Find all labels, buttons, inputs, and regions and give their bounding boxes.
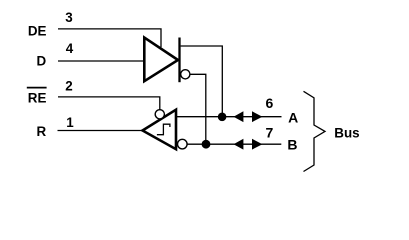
- wire bus line A: [176, 116, 282, 118]
- svg-text:D: D: [37, 54, 47, 69]
- wire driver noninverting output to node A: [181, 46, 223, 117]
- receiver hysteresis symbol: [157, 124, 170, 135]
- svg-text:DE: DE: [28, 24, 47, 39]
- svg-text:1: 1: [66, 115, 74, 130]
- svg-text:7: 7: [266, 124, 274, 140]
- bus brace: [304, 91, 326, 171]
- arrowhead left on line B: [234, 139, 244, 150]
- wire DE pin3 to driver enable: [58, 29, 161, 47]
- wire bus line B: [187, 143, 281, 145]
- svg-text:RE: RE: [28, 90, 47, 105]
- junction node B: [202, 140, 211, 149]
- receiver enable bubble: [155, 110, 164, 119]
- svg-text:3: 3: [65, 10, 72, 25]
- wire D pin4 to driver input: [58, 60, 145, 62]
- svg-text:2: 2: [65, 79, 72, 94]
- receiver R1 triangle: [143, 110, 177, 150]
- wire R pin1 to receiver output: [58, 130, 144, 132]
- svg-text:6: 6: [266, 95, 274, 111]
- svg-text:A: A: [288, 109, 298, 125]
- wire RE pin2 to receiver enable bubble: [58, 97, 160, 110]
- driver output bar: [178, 38, 180, 83]
- svg-text:Bus: Bus: [334, 125, 359, 140]
- svg-text:R: R: [37, 124, 47, 139]
- arrowhead right on line B: [252, 139, 262, 150]
- arrowhead right on line A: [252, 111, 262, 122]
- driver inverting output bubble: [181, 70, 190, 79]
- receiver inverting input bubble: [178, 139, 188, 149]
- svg-text:B: B: [287, 136, 297, 152]
- wire driver inverting output to node B: [190, 74, 206, 144]
- arrowhead left on line A: [234, 111, 244, 122]
- junction node A: [218, 113, 227, 122]
- svg-text:4: 4: [66, 41, 74, 56]
- driver D1 triangle: [144, 38, 178, 82]
